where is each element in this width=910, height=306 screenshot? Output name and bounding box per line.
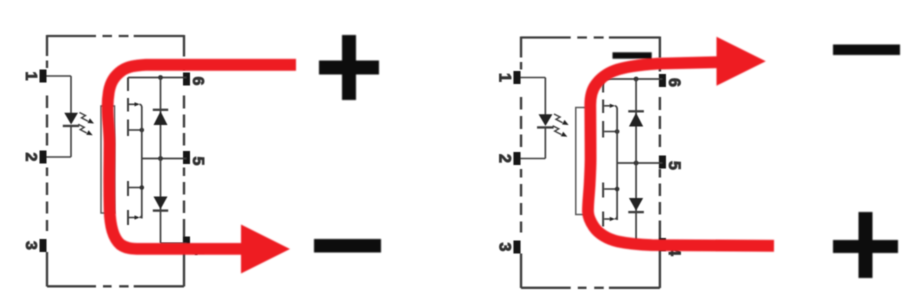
pin 6 marker — [659, 74, 666, 87]
polarity bar marking on U2 package — [613, 52, 652, 58]
svg-text:1: 1 — [22, 72, 39, 81]
pin 2 marker — [40, 151, 47, 164]
pin 3 marker — [40, 239, 47, 252]
pin 5 marker — [183, 151, 190, 164]
mosfet Q4 gate lead with arrow — [604, 216, 617, 221]
pin 1 marker — [40, 70, 47, 83]
plus sign (left, positive terminal) — [319, 35, 379, 100]
svg-text:1: 1 — [495, 73, 513, 82]
svg-text:3: 3 — [495, 243, 513, 252]
wire current path arrow (left, + in to - out) — [108, 65, 296, 249]
mosfet Q2 source lead — [129, 187, 142, 189]
diode D5 triangle (up) — [629, 113, 643, 127]
arrowhead (right path) — [717, 37, 766, 86]
body diode column wire — [635, 79, 637, 245]
diode D3 cathode bar — [153, 209, 168, 211]
LED light emission arrow b — [553, 126, 568, 137]
node center rail junction — [634, 161, 639, 166]
node top rail junction — [158, 75, 163, 80]
pin 3 marker — [513, 241, 520, 254]
wire current path arrow (right, + in at bottom to - out at top) — [588, 62, 774, 246]
RIGHT MODULE — [495, 37, 682, 289]
plus sign (right, positive terminal) — [833, 212, 898, 278]
LED D1 triangle — [64, 113, 78, 125]
wire LED cathode lead — [70, 127, 72, 158]
package outline U2 bottom edge (dash-dot) — [521, 287, 660, 289]
package outline U1 right edge (dashed between pins) — [183, 35, 185, 287]
pin 2 marker — [513, 152, 520, 165]
LED D4 cathode bar — [537, 126, 554, 128]
diode D6 triangle (down) — [629, 198, 643, 211]
gate drive dashed line — [602, 79, 604, 227]
wire LED cathode lead — [544, 128, 546, 159]
LED D1 cathode bar — [63, 125, 79, 127]
wire pin1 to LED anode — [521, 77, 546, 79]
pin 5 marker — [659, 156, 666, 169]
LED light emission arrow a — [80, 113, 95, 124]
node Q1 source junction — [140, 128, 145, 133]
svg-text:5: 5 — [189, 157, 206, 166]
package outline U2 top edge (dash-dot) — [521, 36, 660, 38]
diode D5 cathode bar — [628, 110, 644, 112]
node Q4 source junction — [615, 187, 620, 192]
wire top rail to pin 6 — [128, 77, 187, 79]
mosfet Q4 source lead — [604, 188, 617, 190]
minus sign (right, negative terminal) — [833, 45, 900, 56]
body diode column wire — [160, 78, 162, 244]
photodiode array box — [576, 108, 590, 215]
LEFT MODULE — [22, 35, 206, 287]
wire center rail to pin 5 — [142, 158, 187, 160]
node Q2 source junction — [140, 185, 145, 190]
svg-text:6: 6 — [665, 78, 683, 87]
mosfet Q1 source lead — [129, 129, 142, 131]
package outline U2 right edge (dashed between pins) — [659, 37, 661, 289]
wire LED to pin2 — [47, 156, 72, 158]
pin 1 marker — [513, 71, 520, 84]
pin 6 marker — [183, 73, 190, 86]
mosfet Q2 gate lead with arrow — [129, 215, 142, 220]
minus sign (left, negative terminal) — [314, 239, 381, 253]
package outline U1 bottom edge (dash-dot) — [47, 285, 184, 287]
node center rail junction — [158, 156, 163, 161]
svg-text:5: 5 — [665, 161, 683, 170]
wire center rail to pin 5 — [617, 162, 662, 164]
mosfet Q3 gate lead with arrow — [604, 104, 617, 109]
diode D2 cathode bar — [153, 109, 168, 111]
mosfet common vertical — [616, 108, 618, 220]
package outline U1 left edge (dashed between pins) — [46, 35, 48, 287]
pin 4 marker — [183, 237, 190, 250]
package outline U1 top edge (dash-dot) — [47, 35, 184, 37]
arrowhead (left path) — [241, 225, 290, 274]
diode D6 cathode bar — [628, 211, 644, 213]
diode D3 triangle (down) — [154, 197, 168, 210]
svg-text:2: 2 — [22, 153, 39, 162]
pin 4 marker — [659, 238, 666, 251]
svg-text:2: 2 — [495, 154, 513, 163]
wire LED anode lead — [544, 78, 546, 115]
package outline U2 left edge (dashed between pins) — [520, 37, 522, 289]
node Q3 source junction — [615, 129, 620, 134]
wire top rail to pin 6 — [603, 78, 662, 80]
mosfet Q3 source lead — [604, 131, 617, 133]
wire bottom rail to pin 4 — [161, 242, 187, 244]
node top rail junction — [634, 77, 639, 82]
mosfet common vertical — [141, 107, 143, 219]
LED D4 triangle — [539, 114, 553, 126]
diode D2 triangle (up) — [154, 111, 168, 125]
photodiode array box — [101, 106, 115, 213]
svg-text:3: 3 — [22, 241, 39, 250]
LED light emission arrow b — [78, 124, 93, 135]
wire pin1 to LED anode — [47, 75, 72, 77]
wire LED to pin2 — [521, 158, 546, 160]
gate drive dashed line — [127, 78, 129, 226]
wire LED anode lead — [70, 76, 72, 113]
wire bottom rail to pin 4 — [636, 244, 662, 246]
svg-text:6: 6 — [189, 77, 206, 86]
mosfet Q1 gate lead with arrow — [129, 102, 142, 107]
LED light emission arrow a — [554, 114, 569, 125]
